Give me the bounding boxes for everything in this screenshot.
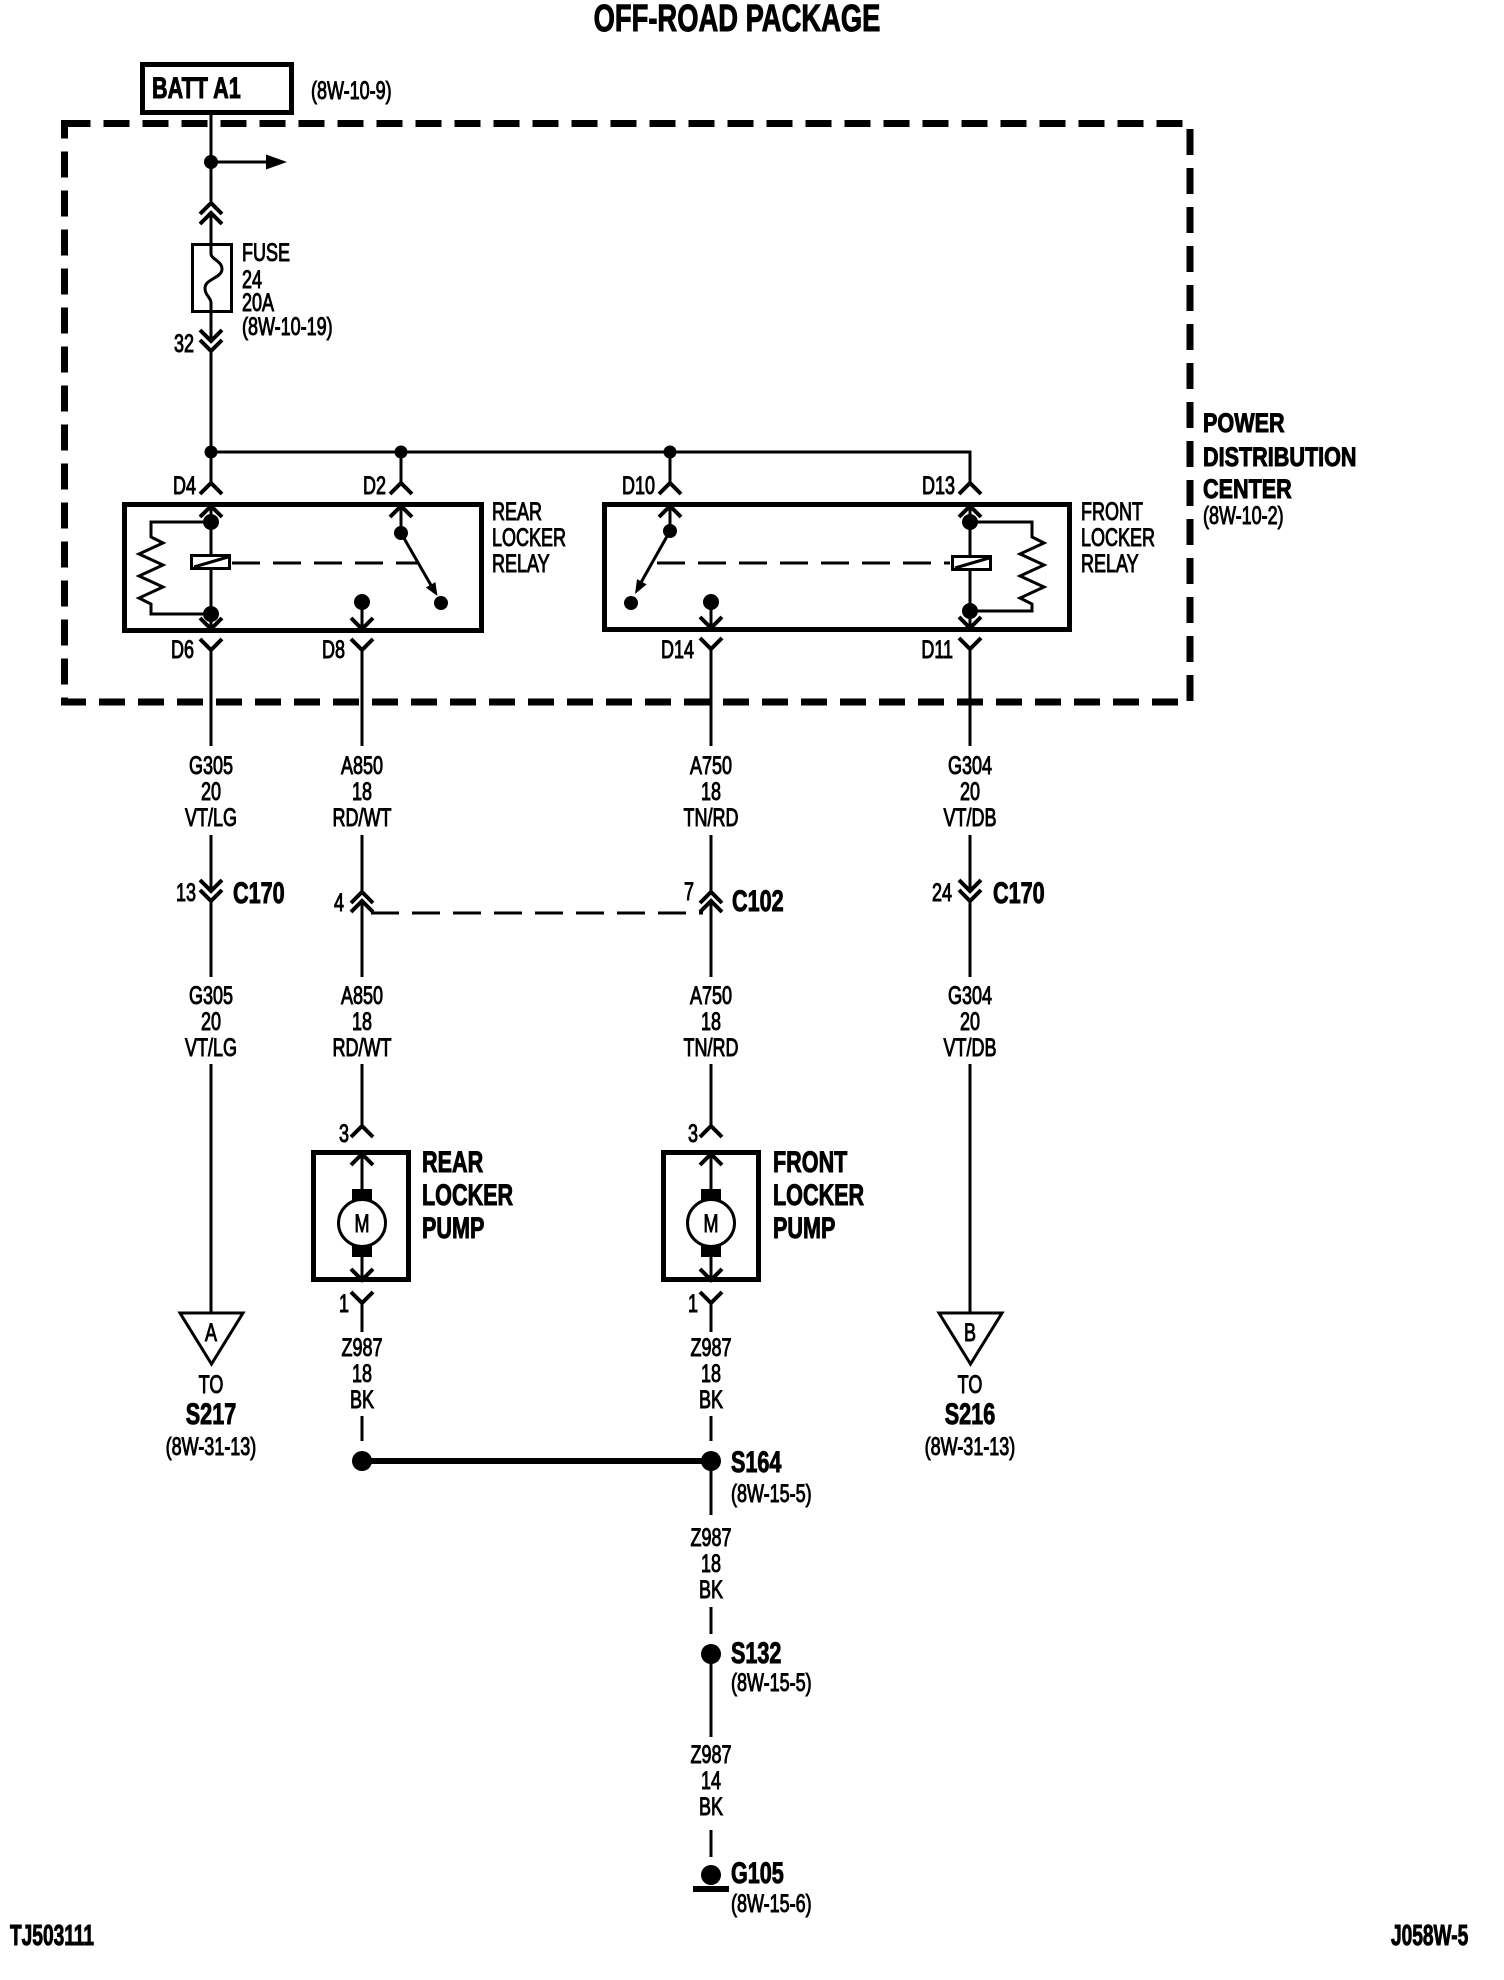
- bus wire to relay coils and contacts: [211, 452, 970, 483]
- svg-text:3: 3: [339, 1119, 349, 1148]
- pin 1 chevron inside REAR pump: [351, 1257, 373, 1280]
- wire out of PDC: [210, 650, 213, 746]
- svg-text:REAR: REAR: [492, 497, 542, 526]
- svg-text:(8W-10-9): (8W-10-9): [311, 76, 392, 105]
- dashed wire segment to splice: [361, 1416, 364, 1441]
- wire into fuse: [210, 213, 213, 244]
- wire A850 to rear pump: [361, 1064, 364, 1126]
- pin D4 connector fork: [173, 471, 222, 500]
- svg-text:LOCKER: LOCKER: [773, 1177, 864, 1211]
- svg-text:18: 18: [352, 1007, 372, 1036]
- svg-text:C170: C170: [233, 875, 285, 909]
- svg-text:20: 20: [201, 777, 221, 806]
- wire fuse to connector 32: [210, 313, 213, 341]
- battery feed box BATT A1: [143, 65, 292, 113]
- svg-text:Z987: Z987: [341, 1333, 382, 1362]
- connector terminal 32: [174, 329, 222, 358]
- svg-text:(8W-15-6): (8W-15-6): [731, 1889, 812, 1918]
- svg-text:POWER: POWER: [1203, 409, 1285, 439]
- wire segment below connector: [969, 901, 972, 977]
- pin D11 fork below box: [921, 635, 981, 664]
- wire pump FRONT ground lead: [710, 1303, 713, 1332]
- svg-text:VT/DB: VT/DB: [944, 803, 997, 832]
- label POWER DISTRIBUTION CENTER: [1203, 409, 1357, 530]
- connector C170 terminal 13: [176, 875, 285, 909]
- pin D13 connector fork: [922, 471, 981, 500]
- svg-text:BK: BK: [699, 1792, 723, 1821]
- svg-text:PUMP: PUMP: [773, 1210, 835, 1244]
- svg-text:D4: D4: [173, 471, 196, 500]
- svg-text:20: 20: [960, 1007, 980, 1036]
- wire label G304 20 VT/DB: [944, 751, 997, 832]
- svg-text:(8W-15-5): (8W-15-5): [731, 1479, 812, 1508]
- wire label Z987 18 BK: [690, 1333, 731, 1414]
- power distribution center dashed box: [65, 124, 1191, 703]
- svg-text:D10: D10: [622, 471, 655, 500]
- splice node left: [352, 1451, 372, 1471]
- wire segment to connector: [710, 835, 713, 892]
- wire fuse output to bus: [210, 351, 213, 452]
- svg-text:FUSE: FUSE: [242, 238, 290, 267]
- pin D14 node: [703, 594, 719, 610]
- switch pivot node D10: [663, 524, 677, 538]
- coil element symbol (front): [953, 522, 991, 611]
- splice node S132: [701, 1644, 721, 1664]
- wire battery feed down from BATT A1: [210, 113, 213, 201]
- svg-text:(8W-10-2): (8W-10-2): [1203, 501, 1284, 530]
- pin D4 chevron and stub: [200, 506, 222, 522]
- svg-text:20: 20: [960, 777, 980, 806]
- label REAR LOCKER RELAY: [492, 497, 566, 578]
- svg-text:7: 7: [684, 877, 694, 906]
- wire label A850 18 RD/WT (lower): [333, 981, 392, 1062]
- footer sheet code TJ503111: [10, 1920, 94, 1952]
- wire out of PDC: [710, 649, 713, 746]
- fuse 24 20A: [193, 244, 232, 313]
- svg-text:(8W-15-5): (8W-15-5): [731, 1668, 812, 1697]
- svg-text:1: 1: [688, 1289, 698, 1318]
- pin 3 fork above FRONT pump: [688, 1119, 722, 1148]
- svg-text:REAR: REAR: [422, 1144, 483, 1178]
- svg-text:D8: D8: [322, 635, 345, 664]
- svg-text:A850: A850: [341, 981, 383, 1010]
- coil element symbol (rear): [192, 522, 230, 614]
- svg-text:B: B: [964, 1318, 976, 1347]
- title OFF-ROAD PACKAGE: [594, 0, 881, 40]
- svg-text:G305: G305: [189, 981, 233, 1010]
- splice bus S164: [362, 1458, 711, 1464]
- wire bus to D2: [400, 452, 403, 483]
- svg-text:3: 3: [688, 1119, 698, 1148]
- pin 3 chevron inside REAR pump: [351, 1154, 373, 1190]
- pin D13 chevron and stub: [959, 506, 981, 522]
- svg-text:(8W-10-19): (8W-10-19): [242, 312, 333, 341]
- wire segment to connector: [969, 835, 972, 891]
- svg-text:DISTRIBUTION: DISTRIBUTION: [1203, 443, 1357, 473]
- switch contact node (rear): [434, 596, 448, 610]
- connector symbol above fuse: [200, 203, 222, 224]
- svg-text:18: 18: [701, 777, 721, 806]
- pump box REAR LOCKER PUMP: [314, 1153, 409, 1280]
- label S164 (8W-15-5): [731, 1444, 812, 1507]
- wire out of PDC: [361, 650, 364, 746]
- svg-text:S164: S164: [731, 1444, 782, 1478]
- wire G305 to connector A: [210, 1064, 213, 1313]
- label FRONT LOCKER RELAY: [1081, 497, 1155, 578]
- svg-text:VT/LG: VT/LG: [185, 1033, 237, 1062]
- svg-text:4: 4: [334, 888, 344, 917]
- svg-text:BATT A1: BATT A1: [152, 70, 241, 104]
- svg-text:VT/LG: VT/LG: [185, 803, 237, 832]
- pin D6 chevron and stub: [200, 614, 222, 629]
- footer drawing code J058W-5: [1391, 1920, 1468, 1952]
- off-page connector B: [939, 1313, 1002, 1364]
- relay coil node top (front): [962, 514, 978, 530]
- svg-text:C170: C170: [993, 875, 1045, 909]
- pin D14 fork below box: [661, 635, 722, 664]
- svg-text:BK: BK: [350, 1385, 374, 1414]
- label TO S216 (8W-31-13): [925, 1370, 1016, 1461]
- svg-text:LOCKER: LOCKER: [422, 1177, 513, 1211]
- wire A750 to front pump: [710, 1064, 713, 1126]
- pin 3 fork above REAR pump: [339, 1119, 373, 1148]
- switch pivot node D2: [394, 526, 408, 540]
- relay coil node bottom (front): [962, 603, 978, 619]
- wire S164 to Z987: [710, 1471, 713, 1515]
- junction dot battery feed: [204, 155, 218, 169]
- wire label G305 20 VT/LG (lower): [185, 981, 237, 1062]
- connector C102 terminal 4: [334, 888, 373, 917]
- motor M FRONT pump: [688, 1189, 735, 1257]
- svg-text:G105: G105: [731, 1855, 784, 1889]
- svg-text:FRONT: FRONT: [773, 1144, 847, 1178]
- junction dot D10 branch: [664, 446, 677, 459]
- arrow tap to other circuits: [211, 155, 287, 170]
- svg-text:24: 24: [932, 878, 952, 907]
- pin D11 chevron and stub: [959, 611, 981, 628]
- svg-text:TO: TO: [958, 1370, 983, 1399]
- svg-text:A750: A750: [690, 981, 732, 1010]
- svg-text:M: M: [355, 1209, 370, 1238]
- wire pump REAR ground lead: [361, 1303, 364, 1332]
- switch arm (front relay): [635, 531, 670, 594]
- ground G105: [693, 1865, 729, 1889]
- svg-text:VT/DB: VT/DB: [944, 1033, 997, 1062]
- svg-text:D14: D14: [661, 635, 694, 664]
- relay control dashed link (front): [657, 562, 950, 565]
- wire label A750 18 TN/RD (lower): [684, 981, 739, 1062]
- switch contact node (front): [624, 596, 638, 610]
- pin D2 chevron and stub: [390, 506, 412, 533]
- svg-text:13: 13: [176, 878, 196, 907]
- svg-text:TJ503111: TJ503111: [10, 1920, 94, 1952]
- wire segment to connector: [361, 835, 364, 892]
- svg-text:G304: G304: [948, 751, 992, 780]
- svg-text:18: 18: [701, 1007, 721, 1036]
- svg-text:J058W-5: J058W-5: [1391, 1920, 1468, 1952]
- relay coil node bottom: [203, 606, 219, 622]
- wire label Z987 14 BK: [690, 1740, 731, 1821]
- splice node S164: [701, 1451, 721, 1471]
- svg-text:S217: S217: [186, 1396, 236, 1430]
- svg-text:RELAY: RELAY: [1081, 549, 1139, 578]
- svg-text:LOCKER: LOCKER: [1081, 523, 1155, 552]
- svg-text:18: 18: [352, 1359, 372, 1388]
- relay control dashed link (rear): [232, 562, 418, 565]
- relay coil node top: [203, 514, 219, 530]
- svg-text:1: 1: [339, 1289, 349, 1318]
- svg-text:32: 32: [174, 329, 194, 358]
- svg-text:RELAY: RELAY: [492, 549, 550, 578]
- pin 1 chevron inside FRONT pump: [700, 1257, 722, 1280]
- pin D10 connector fork: [622, 471, 681, 500]
- svg-text:BK: BK: [699, 1575, 723, 1604]
- pin 1 fork below FRONT pump: [688, 1289, 722, 1318]
- wire label Z987 18 BK (below S164): [690, 1523, 731, 1604]
- svg-text:D6: D6: [171, 635, 194, 664]
- label G105 (8W-15-6): [731, 1855, 812, 1917]
- svg-text:Z987: Z987: [690, 1740, 731, 1769]
- relay box REAR LOCKER RELAY: [125, 505, 482, 631]
- wire out of PDC: [969, 649, 972, 746]
- dashed link C102: [371, 912, 703, 915]
- pin D8 chevron and stub: [351, 602, 373, 629]
- svg-text:TN/RD: TN/RD: [684, 1033, 739, 1062]
- junction dot D4 branch: [205, 446, 218, 459]
- connector C102 terminal 7: [684, 877, 784, 918]
- wire S132 to Z987: [710, 1664, 713, 1737]
- wire label G305 20 VT/LG: [185, 751, 237, 832]
- wire label Z987 18 BK: [341, 1333, 382, 1414]
- svg-text:S132: S132: [731, 1635, 781, 1669]
- wire label G304 20 VT/DB (lower): [944, 981, 997, 1062]
- svg-text:PUMP: PUMP: [422, 1210, 484, 1244]
- svg-text:C102: C102: [732, 883, 784, 917]
- svg-text:G305: G305: [189, 751, 233, 780]
- svg-text:D11: D11: [921, 635, 953, 664]
- svg-text:BK: BK: [699, 1385, 723, 1414]
- svg-text:18: 18: [701, 1549, 721, 1578]
- switch arm (rear relay): [401, 533, 438, 596]
- svg-text:Z987: Z987: [690, 1333, 731, 1362]
- label REAR LOCKER PUMP: [422, 1144, 513, 1244]
- dashed wire segment to S132: [710, 1607, 713, 1634]
- pin D8 node: [354, 594, 370, 610]
- wire segment below connector: [210, 901, 213, 977]
- svg-text:TO: TO: [199, 1370, 224, 1399]
- pump box FRONT LOCKER PUMP: [664, 1153, 759, 1280]
- wire G304 to connector B: [969, 1064, 972, 1313]
- off-page connector A: [180, 1313, 243, 1364]
- resistor relay coil (rear): [139, 522, 211, 614]
- wire bus to D10: [669, 452, 672, 483]
- svg-text:D13: D13: [922, 471, 955, 500]
- svg-text:18: 18: [701, 1359, 721, 1388]
- pin D14 chevron and stub: [700, 602, 722, 628]
- svg-text:OFF-ROAD PACKAGE: OFF-ROAD PACKAGE: [594, 0, 881, 40]
- svg-text:A850: A850: [341, 751, 383, 780]
- svg-text:LOCKER: LOCKER: [492, 523, 566, 552]
- svg-text:(8W-31-13): (8W-31-13): [925, 1432, 1016, 1461]
- resistor relay coil (front): [970, 522, 1044, 611]
- junction dot D2 branch: [395, 446, 408, 459]
- label FRONT LOCKER PUMP: [773, 1144, 864, 1244]
- svg-text:18: 18: [352, 777, 372, 806]
- svg-text:RD/WT: RD/WT: [333, 1033, 392, 1062]
- svg-text:D2: D2: [363, 471, 386, 500]
- svg-text:(8W-31-13): (8W-31-13): [166, 1432, 257, 1461]
- pin D8 fork below box: [322, 635, 373, 664]
- svg-text:M: M: [704, 1209, 719, 1238]
- svg-text:TN/RD: TN/RD: [684, 803, 739, 832]
- svg-text:20: 20: [201, 1007, 221, 1036]
- pin 3 chevron inside FRONT pump: [700, 1154, 722, 1190]
- label FUSE 24 20A (8W-10-19): [242, 238, 333, 341]
- wire label A750 18 TN/RD: [684, 751, 739, 832]
- svg-text:RD/WT: RD/WT: [333, 803, 392, 832]
- connector C170 terminal 24: [932, 875, 1045, 909]
- label S132 (8W-15-5): [731, 1635, 812, 1696]
- dashed wire segment to G105: [710, 1830, 713, 1857]
- pin D6 fork below box: [171, 635, 222, 664]
- svg-text:FRONT: FRONT: [1081, 497, 1143, 526]
- wire segment below connector: [710, 901, 713, 977]
- svg-text:14: 14: [701, 1766, 721, 1795]
- wire segment to connector: [210, 835, 213, 891]
- pin D10 chevron and stub: [659, 506, 681, 531]
- label (8W-10-9): [311, 76, 392, 105]
- pin D2 connector fork: [363, 471, 412, 500]
- wire segment below connector: [361, 901, 364, 977]
- svg-text:A750: A750: [690, 751, 732, 780]
- pin 1 fork below REAR pump: [339, 1289, 373, 1318]
- motor M REAR pump: [339, 1189, 386, 1257]
- relay box FRONT LOCKER RELAY: [605, 505, 1070, 630]
- wire bus to D4: [210, 452, 213, 483]
- label TO S217 (8W-31-13): [166, 1370, 257, 1461]
- dashed wire segment to splice: [710, 1416, 713, 1441]
- svg-text:Z987: Z987: [690, 1523, 731, 1552]
- svg-text:S216: S216: [945, 1396, 995, 1430]
- wire label A850 18 RD/WT: [333, 751, 392, 832]
- svg-text:A: A: [205, 1318, 217, 1347]
- svg-text:G304: G304: [948, 981, 992, 1010]
